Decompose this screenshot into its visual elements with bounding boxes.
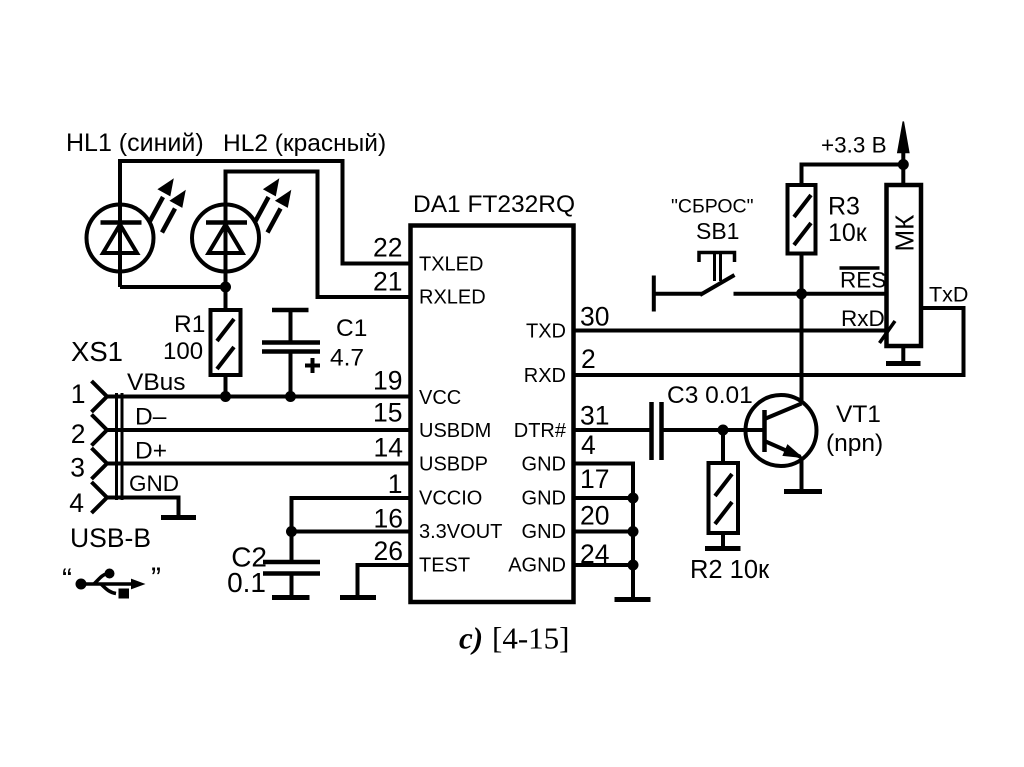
svg-text:VCCIO: VCCIO [419, 488, 482, 510]
MCU MK block [887, 185, 922, 346]
IC pin label VCC [419, 387, 461, 409]
wire junction to R1 [224, 287, 228, 310]
IC pin label TXLED [419, 254, 483, 276]
svg-text:GND: GND [522, 454, 566, 476]
wire TXD to MK RxD [575, 329, 887, 333]
node bus pin24 [628, 560, 639, 571]
label R3 10к [828, 193, 868, 248]
node bus pin17 [628, 493, 639, 504]
node R3 bottom [796, 288, 807, 299]
wire emitter down [800, 457, 804, 489]
svg-text:3.3VOUT: 3.3VOUT [419, 521, 502, 543]
pin number 1 [388, 469, 403, 499]
label USB-B [70, 523, 151, 553]
label TxD [929, 283, 968, 307]
IC pin label GND 4 [522, 454, 566, 476]
label HL1 [66, 129, 204, 157]
connector XS1 body lines [117, 393, 123, 500]
svg-text:1: 1 [71, 379, 86, 409]
IC pin label 3.3VOUT [419, 521, 502, 543]
svg-text:14: 14 [374, 433, 403, 463]
wire R3 bottom [800, 254, 804, 294]
pin number 2 [71, 419, 86, 449]
ground C2 [272, 595, 310, 600]
wire AGND pin24 [575, 563, 633, 567]
IC pin label TXD [526, 321, 566, 343]
pin number 2 [581, 344, 596, 374]
power +3.3V arrow [898, 122, 909, 186]
capacitor C1 [262, 310, 320, 397]
wire R1 to VBus [224, 375, 228, 397]
svg-text:USBDP: USBDP [419, 454, 488, 476]
resistor R2 [709, 463, 739, 533]
IC pin label USBDM [419, 420, 491, 442]
svg-text:[4-15]: [4-15] [492, 621, 569, 656]
pin number 4 [69, 488, 84, 518]
caption c) [4-15] [459, 621, 569, 656]
svg-text:HL2 (красный): HL2 (красный) [223, 130, 386, 157]
wire C3 to base [664, 428, 765, 432]
resistor R3 [788, 185, 816, 254]
svg-text:USBDM: USBDM [419, 420, 491, 442]
ground R2 [705, 546, 741, 551]
IC pin label RXD [524, 365, 566, 387]
label VT1 (npn) [826, 401, 883, 457]
wire D- [106, 428, 409, 432]
svg-text:100: 100 [163, 338, 203, 365]
svg-text:17: 17 [580, 464, 609, 494]
svg-text:4: 4 [581, 430, 596, 460]
wire USB GND [106, 498, 179, 516]
IC pin label GND 17 [522, 488, 566, 510]
node R1-VBus [220, 391, 231, 402]
svg-text:2: 2 [71, 419, 86, 449]
svg-text:0.1: 0.1 [227, 567, 266, 598]
svg-text:XS1: XS1 [71, 336, 123, 367]
wire GND pin4 to bus [575, 464, 633, 598]
svg-text:RES: RES [840, 268, 886, 293]
svg-text:22: 22 [373, 233, 402, 263]
pin number 21 [373, 267, 402, 297]
pin number 14 [374, 433, 403, 463]
svg-text:+3.3 В: +3.3 В [821, 133, 887, 158]
pin number 4 [581, 430, 596, 460]
label HL2 [223, 130, 386, 157]
svg-text:4: 4 [69, 488, 84, 518]
svg-text:R2 10к: R2 10к [690, 556, 770, 584]
LED HL1 [87, 181, 185, 272]
pin number 22 [373, 233, 402, 263]
LED HL2 [192, 181, 290, 272]
connector XS1 pin contacts [92, 381, 108, 513]
wire TEST [358, 565, 410, 595]
svg-text:RXD: RXD [524, 365, 566, 387]
wire VCCIO to 3.3VOUT [292, 498, 410, 532]
IC pin label RXLED [419, 287, 486, 309]
IC pin label TEST [419, 555, 470, 577]
label SB1 [696, 218, 739, 244]
svg-text:31: 31 [580, 401, 609, 431]
IC pin label GND 20 [522, 521, 566, 543]
svg-text:”: ” [151, 562, 161, 595]
wire VBus [106, 395, 409, 399]
wire SB1 to MK RES [734, 292, 887, 296]
wire R3 top to +3.3V node [802, 165, 904, 186]
svg-text:TXLED: TXLED [419, 254, 483, 276]
pin number 16 [374, 504, 403, 534]
pin number 17 [580, 464, 609, 494]
svg-text:DTR#: DTR# [514, 420, 567, 442]
svg-text:VT1: VT1 [836, 401, 881, 428]
svg-text:RxD: RxD [841, 306, 885, 331]
node +3.3V [898, 159, 909, 170]
svg-text:C1: C1 [336, 315, 367, 342]
svg-text:RXLED: RXLED [419, 287, 486, 309]
svg-text:TXD: TXD [526, 321, 566, 343]
wire collector up to SB1 node [800, 294, 804, 404]
pin number 19 [373, 366, 402, 396]
pin number 26 [374, 536, 403, 566]
wire HL2 anode to pin 21 RXLED [226, 172, 410, 298]
label C2 0.1 [227, 542, 267, 599]
wire HL1 cathode to node [120, 285, 226, 289]
pin number 1 [71, 379, 86, 409]
node C1-VBus [285, 391, 296, 402]
node base/R2 [718, 425, 729, 436]
svg-text:4.7: 4.7 [330, 345, 364, 372]
wire MK to ground [901, 346, 905, 361]
capacitor C3 [652, 402, 662, 460]
net label D+ [135, 438, 167, 465]
wire DTR# to C3 [575, 428, 650, 432]
label +3.3 В [821, 133, 887, 158]
ground VT1 emitter [784, 489, 822, 494]
pin number 31 [580, 401, 609, 431]
label C1 4.7 + [330, 315, 367, 372]
ground MK [886, 361, 921, 366]
svg-text:“: “ [62, 563, 72, 596]
svg-text:19: 19 [373, 366, 402, 396]
svg-text:C3 0.01: C3 0.01 [667, 382, 753, 409]
svg-text:21: 21 [373, 267, 402, 297]
svg-text:15: 15 [373, 398, 402, 428]
svg-text:3: 3 [70, 453, 85, 483]
svg-text:(npn): (npn) [826, 430, 883, 457]
svg-text:VBus: VBus [127, 369, 186, 396]
svg-text:30: 30 [580, 302, 609, 332]
label R2 10к [690, 556, 770, 584]
node bus pin20 [628, 526, 639, 537]
label RxD [841, 306, 885, 331]
wire node to R2 [721, 430, 725, 463]
label DA1 FT232RQ [413, 191, 575, 218]
IC pin label USBDP [419, 454, 488, 476]
svg-text:DA1 FT232RQ: DA1 FT232RQ [413, 191, 575, 218]
connector XS1 label [71, 336, 123, 367]
label СБРОС [671, 196, 754, 218]
svg-text:AGND: AGND [508, 555, 566, 577]
resistor R1 [211, 310, 241, 375]
label R1 100 [163, 311, 205, 365]
svg-text:GND: GND [522, 488, 566, 510]
svg-text:10к: 10к [828, 219, 868, 247]
wire HL1 anode to pin 22 TXLED [120, 161, 409, 287]
svg-text:1: 1 [388, 469, 403, 499]
USB trident icon [62, 562, 161, 599]
RES overline [840, 266, 880, 270]
svg-text:16: 16 [374, 504, 403, 534]
node LED junction [220, 282, 231, 293]
pin number 30 [580, 302, 609, 332]
svg-text:D–: D– [135, 404, 167, 431]
ground USB [161, 515, 196, 520]
wire RXD to MK TxD [575, 308, 964, 375]
svg-text:USB-B: USB-B [70, 523, 151, 553]
pushbutton SB1 [654, 253, 735, 312]
pin number 20 [580, 501, 609, 531]
svg-text:R1: R1 [174, 311, 205, 338]
svg-text:2: 2 [581, 344, 596, 374]
svg-text:GND: GND [522, 521, 566, 543]
wire 3.3VOUT [292, 530, 410, 534]
svg-text:SB1: SB1 [696, 218, 739, 244]
svg-text:TxD: TxD [929, 283, 968, 307]
svg-text:МК: МК [890, 215, 920, 252]
svg-text:D+: D+ [135, 438, 167, 465]
pin number 24 [580, 539, 609, 569]
pin number 3 [70, 453, 85, 483]
svg-text:R3: R3 [828, 193, 860, 221]
net label GND [129, 471, 179, 496]
ground GND bus [615, 597, 651, 602]
wire D+ [106, 462, 409, 466]
wire R2 to ground [721, 533, 725, 546]
svg-text:c): c) [459, 621, 483, 656]
svg-text:20: 20 [580, 501, 609, 531]
svg-text:"СБРОС": "СБРОС" [671, 196, 754, 218]
svg-text:VCC: VCC [419, 387, 461, 409]
svg-text:GND: GND [129, 471, 179, 496]
ground TEST [340, 595, 376, 600]
RxD slash [880, 321, 896, 343]
capacitor C2 [263, 532, 320, 596]
svg-text:TEST: TEST [419, 555, 470, 577]
net label VBus [127, 369, 186, 396]
label C3 0.01 [667, 382, 753, 409]
svg-text:HL1 (синий): HL1 (синий) [66, 129, 204, 157]
label RES with overline [840, 268, 886, 293]
net label D- [135, 404, 167, 431]
IC pin label VCCIO [419, 488, 482, 510]
IC pin label AGND [508, 555, 566, 577]
node C2 top [286, 526, 297, 537]
transistor VT1 [746, 395, 817, 466]
svg-text:26: 26 [374, 536, 403, 566]
IC DA1 FT232RQ body [411, 226, 574, 603]
IC pin label DTR# [514, 420, 567, 442]
wire GND pin20 [575, 530, 633, 534]
pin number 15 [373, 398, 402, 428]
wire GND pin17 [575, 496, 633, 500]
